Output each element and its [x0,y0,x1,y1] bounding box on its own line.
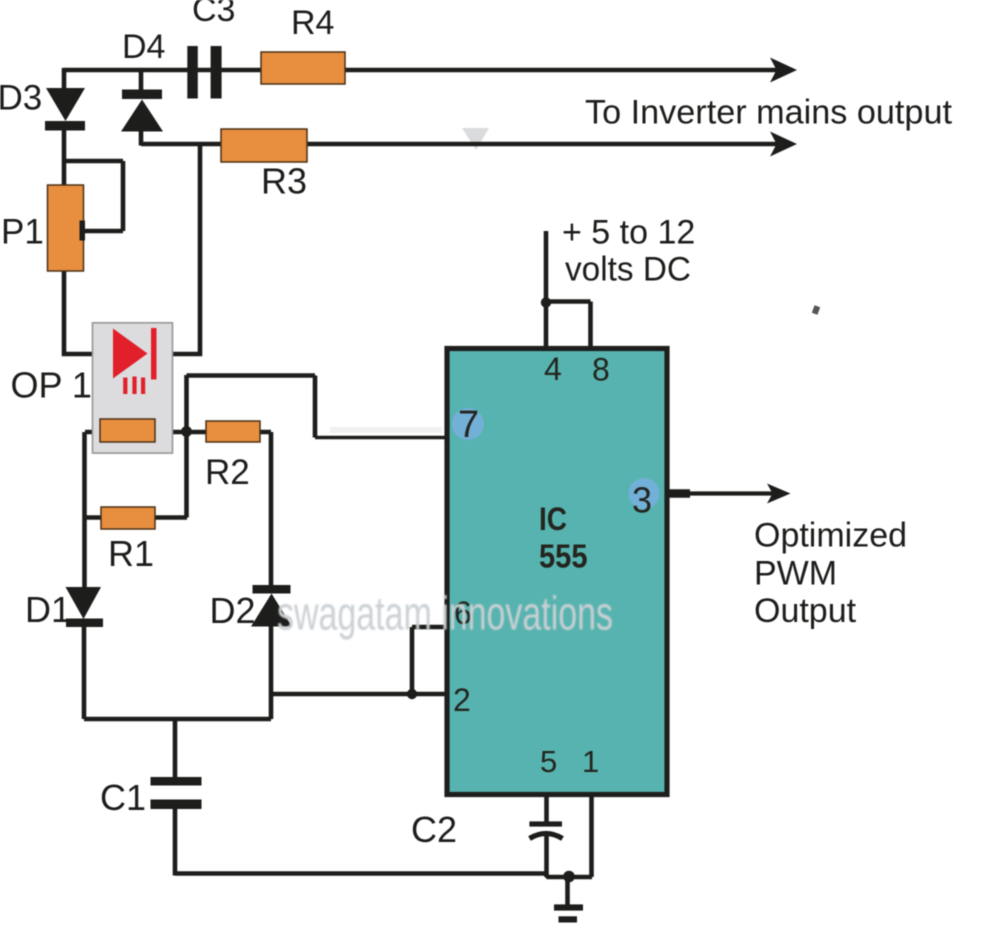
svg-text:IC: IC [539,501,567,537]
svg-text:C1: C1 [100,777,146,818]
svg-text:R4: R4 [291,4,334,42]
svg-text:2: 2 [453,682,471,718]
svg-text:D3: D3 [0,79,42,118]
svg-text:3: 3 [632,480,652,521]
svg-text:C2: C2 [411,809,457,850]
svg-text:4: 4 [544,351,562,387]
svg-text:Output: Output [754,592,857,630]
svg-text:1: 1 [582,744,599,779]
svg-text:D4: D4 [122,28,165,66]
svg-text:8: 8 [592,352,610,388]
svg-text:D2: D2 [210,590,256,631]
svg-text:+ 5 to 12: + 5 to 12 [562,214,695,252]
svg-text:555: 555 [539,538,588,575]
svg-text:R3: R3 [261,161,307,202]
svg-text:swagatam innovations: swagatam innovations [277,587,613,640]
svg-text:R1: R1 [108,533,154,574]
svg-text:To Inverter mains output: To Inverter mains output [585,94,953,132]
svg-text:Optimized: Optimized [754,517,907,555]
svg-text:R2: R2 [205,453,250,492]
svg-text:PWM: PWM [754,555,837,593]
svg-text:7: 7 [458,404,479,446]
svg-text:C3: C3 [192,0,235,29]
svg-text:D1: D1 [25,589,71,630]
svg-text:5: 5 [540,744,557,779]
svg-text:P1: P1 [1,213,44,252]
svg-text:volts DC: volts DC [565,251,691,289]
svg-text:OP 1: OP 1 [11,365,92,406]
